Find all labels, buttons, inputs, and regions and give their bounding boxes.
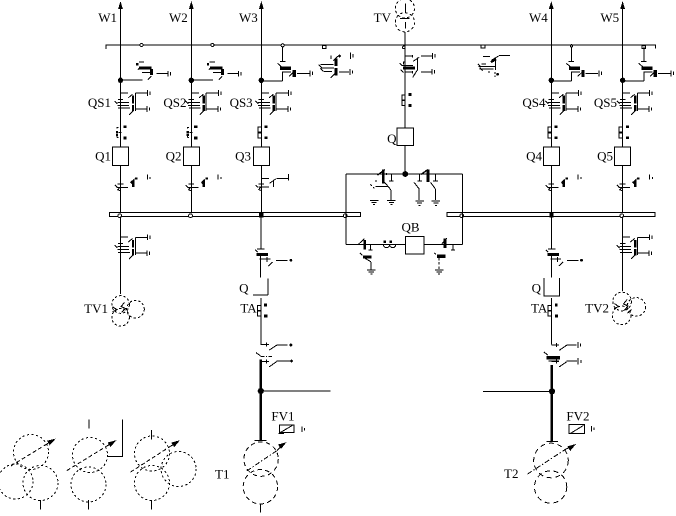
spare disconnector tap (right of TV) [481,45,485,48]
earthing switch W2 (open) [191,79,213,81]
disconnector QS2 [191,92,199,94]
svg-text:W5: W5 [600,10,619,25]
svg-text:TA: TA [240,301,257,316]
svg-text:FV2: FV2 [566,408,589,423]
disconnector QS3 [261,92,269,94]
wire T1 branch upper [260,217,262,249]
busbar connection node [460,214,464,218]
planned transformer option 2 (dashed) [73,438,108,473]
wire T1 bottom stub [259,504,261,513]
svg-text:W3: W3 [239,10,258,25]
disconnector on TV1 branch [121,236,129,238]
current transformer on W2 [188,127,190,128]
wire bridge left vertical [345,174,347,245]
disconnector T1 branch (below busbar) [257,248,265,250]
disconnector bridge bottom-left [359,239,365,245]
wire elbow option 2 [107,419,123,456]
svg-text:Q2: Q2 [166,149,182,164]
disconnector on TV branch [406,55,413,57]
disconnector bridge top-left [377,170,384,176]
disconnector below Q4 [548,183,554,185]
svg-text:Q1: Q1 [95,149,111,164]
svg-text:Q: Q [532,281,542,296]
wire stub left of T2 junction [483,390,552,392]
wire bridge right vertical [462,174,464,245]
disconnector QS1 [121,92,129,94]
busbar tap node T2 [550,214,553,217]
disconnector T2 branch (below busbar) [548,248,556,250]
disconnector link W5 to tie-line [623,80,644,82]
wire TV drop [404,32,406,128]
voltage transformer TV1 [112,296,130,314]
disconnector pair above T1 [261,343,269,347]
bus-tie breaker QB [405,237,423,254]
ground (bridge bottom-left) [367,270,376,274]
disconnector below Q1 [118,183,124,185]
disconnector QS4 [551,92,559,94]
svg-text:Q: Q [387,131,397,146]
voltage transformer TV2 [613,292,632,311]
ground (bridge top-left ES a) [370,200,379,204]
wire bridge bottom [346,244,463,246]
node hook on tie-line at W4 [570,45,572,47]
node TV junction [403,172,408,177]
svg-text:FV1: FV1 [271,408,294,423]
svg-text:W1: W1 [98,10,117,25]
svg-text:W4: W4 [529,10,548,25]
current transformer on W5 [619,127,622,132]
circuit breaker Q (T2 branch) [544,278,560,296]
svg-text:W2: W2 [169,10,188,25]
earthing switch W1 (open) [121,79,143,81]
spare disconnector tap (left of TV) [322,46,326,49]
svg-text:TV2: TV2 [585,301,609,316]
svg-text:TA: TA [531,301,548,316]
node hook on tie-line at W5 [642,46,646,49]
disconnector on TV2 branch [623,236,631,238]
disconnector link W3 to tie-line [261,80,282,82]
busbar connection node [343,214,347,218]
wire top tie-line [106,45,655,49]
feeder W2 line with arrow [190,6,192,212]
svg-text:Q: Q [239,281,249,296]
svg-text:TV: TV [374,10,392,25]
circuit breaker Q (T1 branch) [253,278,268,295]
svg-text:T1: T1 [215,467,229,482]
wire [260,298,262,345]
circuit breaker Q4 [543,147,559,166]
wire TV branch to bridge [404,145,406,174]
disconnector QS5 [623,92,631,94]
disconnector below Q2 [188,183,194,185]
transformer T2 [547,441,558,443]
wire W5 below busbar [622,217,624,291]
ground (bridge bottom-right) [435,270,444,274]
circuit breaker Q2 [183,147,199,166]
svg-text:Q5: Q5 [597,149,613,164]
current transformer TA on T2 branch [548,305,551,310]
current transformer on W1 [117,127,119,128]
node hook on tie-line at W2 [211,43,214,46]
wire bridge top [346,173,463,175]
feeder W1 line with arrow [120,6,122,212]
busbar W (left section) [110,212,361,216]
busbar connection node [620,214,624,218]
current transformer TA on T1 branch [258,305,261,310]
disconnector bridge bottom-right [441,238,446,244]
wire W1 below busbar [120,217,122,295]
voltage transformer TV (two dashed circles) [395,0,414,18]
circuit breaker Q1 [113,147,129,166]
feeder W5 line with arrow [622,6,624,212]
planned transformer option 1 (dashed) [14,435,49,470]
node hook on tie-line at W1 [140,43,143,46]
busbar tap node T1 [260,214,263,217]
svg-text:QB: QB [401,220,419,235]
svg-text:QS2: QS2 [163,95,186,110]
disconnector bridge top-right [421,170,428,175]
circuit breaker Q3 [253,147,269,166]
current transformer on W4 [548,127,551,132]
busbar connection node [118,214,122,218]
node hook below tie-line at TV [403,46,406,49]
ground (bridge top-right ES a) [415,201,424,205]
svg-text:Q3: Q3 [235,149,251,164]
svg-text:QS1: QS1 [88,95,111,110]
busbar connection node [189,214,193,218]
wire [551,298,553,345]
disconnector below Q3 [258,183,264,185]
current transformer on W3 [258,127,261,132]
surge arrester FV1 [280,425,295,433]
wire thick T2 feed [550,365,553,442]
ground (bridge top-left ES b) [387,200,396,204]
disconnector link W4 to tie-line [551,80,571,82]
node T1 junction [258,388,263,393]
svg-text:TV1: TV1 [84,301,108,316]
circuit breaker Q on TV branch [397,128,413,145]
wire T2 branch upper [551,217,553,249]
disconnector pair above T2 [551,343,559,347]
svg-text:QS5: QS5 [594,95,617,110]
surge arrester FV2 [569,425,585,434]
feeder W3 line with arrow [260,6,262,212]
transformer T1 [255,440,267,442]
wire stub right of T1 junction [261,390,331,392]
circuit breaker Q5 [615,147,631,166]
current transformer on TV branch [402,95,405,100]
feeder W4 line with arrow [550,6,552,212]
ground (bridge top-right ES b) [432,201,441,205]
svg-text:Q4: Q4 [526,149,542,164]
disconnector below Q5 [620,183,626,185]
svg-text:T2: T2 [504,466,518,481]
svg-text:QS4: QS4 [522,95,546,110]
busbar W (right section) [447,212,655,216]
node T2 junction [549,389,554,394]
planned transformer option 3 (dashed) [135,436,170,471]
wire thick T1 feed [259,360,262,441]
svg-text:QS3: QS3 [230,95,253,110]
current transformer on bridge [384,241,386,242]
node hook on tie-line at W3 [281,44,284,47]
